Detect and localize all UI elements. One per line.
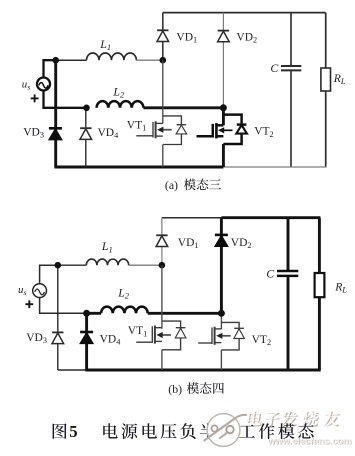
diode VD2 (bottom circuit) [215, 235, 228, 246]
node A (bottom circuit) [55, 262, 62, 269]
wire VD3 branch (top circuit) [54, 60, 57, 167]
wire VT1 source to rail (top circuit) [162, 145, 164, 168]
wire VD2 branch (top circuit) [222, 13, 224, 108]
label C (bottom circuit) [266, 266, 274, 280]
label VT2 (top circuit) [254, 126, 274, 139]
caption (b) mode four [168, 382, 224, 396]
caption (a) mode three [165, 178, 221, 192]
label L2 (bottom circuit) [117, 286, 130, 301]
wire right branch vertical (top circuit) [325, 13, 327, 167]
capacitor C (bottom circuit) [277, 271, 298, 276]
transistor VT2 (bottom circuit) [198, 322, 244, 350]
wire node A to L1 (bottom circuit) [58, 264, 87, 266]
wire source bottom lead (top circuit) [44, 91, 87, 108]
wire source top lead (top circuit) [44, 60, 56, 77]
label L1 (top circuit) [99, 37, 111, 52]
diode VD4 (top circuit) [80, 128, 92, 139]
capacitor C (top circuit) [281, 66, 301, 70]
label VD1 (bottom circuit) [178, 237, 199, 250]
svg-text:C: C [266, 266, 274, 280]
node D (top circuit) [220, 104, 227, 111]
wire right branch vertical (bottom circuit) [318, 218, 321, 370]
svg-text:C: C [270, 61, 278, 75]
transistor VT1 (top circuit) [136, 116, 186, 145]
label VD3 (top circuit) [23, 127, 44, 140]
label VD4 (bottom circuit) [100, 334, 122, 347]
wire bottom rail right segment (top circuit) [223, 166, 326, 168]
label VT2 (bottom circuit) [252, 334, 272, 347]
wire bottom rail bold segment (bottom circuit) [85, 369, 320, 372]
transistor VT2 (top circuit) [197, 115, 247, 144]
label L2 (top circuit) [112, 85, 125, 100]
wire capacitor branch lower (top circuit) [290, 71, 292, 167]
AC source us (bottom circuit) [33, 284, 47, 298]
diode VD4 (bottom circuit) [80, 332, 93, 343]
inductor L1 (bottom circuit) [86, 259, 128, 265]
wire top rail bold segment (bottom circuit) [221, 216, 320, 219]
label us (top circuit) [22, 78, 30, 91]
AC source us (top circuit) [37, 78, 50, 91]
diode VD2 (top circuit) [218, 31, 230, 42]
diode VD3 (top circuit) [49, 128, 62, 139]
wire node D to VT2 drain (bottom circuit) [220, 313, 222, 329]
wire bottom rail bold segment (top circuit) [54, 166, 223, 169]
wire top rail left segment (bottom circuit) [162, 217, 222, 219]
label L1 (bottom circuit) [101, 239, 113, 254]
transistor VT1 (bottom circuit) [136, 321, 186, 350]
polarity plus sign (bottom circuit) [25, 300, 33, 308]
inductor L2 (bottom circuit) [101, 307, 148, 314]
diode VD1 (top circuit) [157, 30, 169, 41]
watermark text dianzifashaoyou [246, 411, 341, 427]
wire VT1 source to rail (bottom circuit) [161, 350, 163, 370]
wire L1 to node B (top circuit) [136, 59, 162, 61]
node C (top circuit) [83, 105, 90, 112]
label us (bottom circuit) [18, 284, 26, 297]
label VD1 (top circuit) [176, 31, 197, 44]
node D (bottom circuit) [218, 310, 225, 317]
wire capacitor branch lower (bottom circuit) [287, 277, 290, 370]
node B (top circuit) [160, 57, 167, 64]
label VD4 (top circuit) [98, 127, 120, 140]
label C (top circuit) [270, 61, 278, 75]
wire VD1 branch (bottom circuit) [161, 218, 163, 266]
wire node B to VT1 drain (bottom circuit) [161, 265, 163, 329]
wire VD2 branch (bottom circuit) [220, 218, 223, 314]
wire node A to L1 (top circuit) [56, 59, 87, 61]
label VT1 (bottom circuit) [128, 325, 148, 338]
wire VD3 branch (bottom circuit) [57, 265, 59, 370]
label VD2 (top circuit) [236, 31, 257, 44]
wire L2 to node D (bottom circuit) [148, 312, 222, 315]
node B (bottom circuit) [159, 262, 166, 269]
wire node C to L2 (bottom circuit) [87, 312, 102, 315]
wire node B to VT1 drain (top circuit) [162, 60, 164, 123]
wire VD4 branch (top circuit) [85, 108, 87, 167]
watermark logo emblem [204, 414, 247, 447]
label VT1 (top circuit) [127, 120, 147, 133]
node A (top circuit) [52, 57, 59, 64]
wire bottom rail left segment (bottom circuit) [58, 369, 87, 371]
label VD3 (bottom circuit) [26, 332, 47, 345]
svg-text:5: 5 [69, 422, 77, 441]
wire capacitor branch upper (bottom circuit) [287, 218, 290, 270]
wire VD4 branch (bottom circuit) [85, 313, 88, 370]
label RL (bottom circuit) [334, 281, 347, 295]
wire source bottom lead (bottom circuit) [40, 298, 87, 314]
wire VD1 branch (top circuit) [162, 13, 164, 61]
wire node D to VT2 drain (top circuit) [222, 108, 225, 126]
inductor L1 (top circuit) [87, 53, 137, 60]
wire capacitor branch upper (top circuit) [290, 13, 292, 66]
watermark url elecfans [267, 435, 352, 447]
label RL (top circuit) [333, 72, 346, 86]
label VD2 (bottom circuit) [231, 237, 252, 250]
diode VD1 (bottom circuit) [156, 235, 168, 246]
wire VT2 source to rail (top circuit) [222, 144, 225, 167]
wire VT2 source to rail (bottom circuit) [220, 350, 222, 370]
inductor L2 (top circuit) [97, 101, 144, 108]
wire L2 to node D (top circuit) [143, 106, 223, 109]
wire L1 to node B (bottom circuit) [129, 264, 162, 266]
svg-text:(a): (a) [165, 178, 178, 192]
resistor RL (bottom circuit) [315, 273, 325, 297]
resistor RL (top circuit) [321, 68, 331, 91]
polarity plus sign (top circuit) [31, 95, 39, 103]
figure caption text [53, 422, 314, 441]
wire top rail (top circuit) [163, 12, 326, 14]
node C (bottom circuit) [83, 310, 90, 317]
svg-text:(b): (b) [168, 382, 182, 396]
svg-text:www.elecfans.com: www.elecfans.com [267, 435, 352, 446]
wire source top lead (bottom circuit) [40, 265, 58, 284]
diode VD3 (bottom circuit) [52, 332, 64, 343]
